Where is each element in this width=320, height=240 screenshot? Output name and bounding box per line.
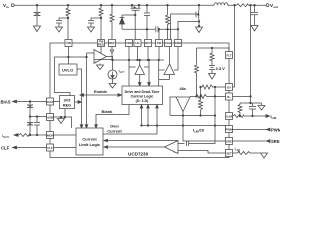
capacitor C5 series bootstrap — [156, 26, 178, 32]
svg-text:UVLO: UVLO — [62, 68, 73, 73]
wire Vout rail — [228, 4, 267, 6]
capacitor C2 — [56, 21, 62, 28]
label Ilim set current — [235, 146, 240, 152]
pin box BIAS left — [47, 98, 54, 105]
svg-text:IMON: IMON — [2, 133, 9, 139]
svg-text:BIAS: BIAS — [47, 100, 54, 104]
capacitor C8 bias — [27, 102, 33, 117]
pin box IMON left — [47, 132, 54, 139]
svg-text:Vout: Vout — [270, 3, 278, 9]
wire x68 down to VIN pin — [67, 18, 69, 40]
capacitor C10 imon filter — [34, 117, 40, 136]
wire op-amp minus input — [87, 47, 102, 129]
svg-text:(D: 1-D): (D: 1-D) — [136, 99, 149, 103]
svg-text:Enable: Enable — [94, 89, 108, 94]
capacitor C4 at x148 — [144, 4, 150, 39]
capacitor C1 input bulk — [34, 4, 41, 26]
svg-text:−: − — [174, 144, 176, 147]
wire sense- down — [233, 5, 252, 103]
wire comparator lower input — [178, 151, 226, 154]
wire op-amp output bus — [107, 57, 165, 71]
svg-text:GND: GND — [175, 41, 181, 45]
node Vin terminal — [11, 4, 14, 7]
pin box PWM right — [226, 126, 233, 133]
wire pin x124 down to drive box — [128, 47, 135, 87]
svg-text:Limit Logic: Limit Logic — [79, 142, 101, 147]
svg-text:PWM: PWM — [271, 128, 280, 133]
wire gate bias bus y29 — [122, 28, 155, 30]
svg-text:+: + — [178, 99, 180, 102]
label PWM — [271, 128, 282, 133]
wire y114 — [170, 115, 215, 117]
pin box BP — [98, 40, 105, 47]
pin box FLT right top — [226, 52, 233, 59]
wire ILIM line — [233, 115, 267, 117]
capacitor C3 — [88, 21, 94, 28]
svg-text:ILIM: ILIM — [235, 146, 240, 152]
node sense- — [250, 4, 252, 6]
pin box ISNS- right — [226, 93, 233, 100]
wire pin DRVH x134 down — [137, 47, 139, 61]
svg-text:VDD: VDD — [126, 41, 132, 45]
resistor Rsense — [237, 4, 249, 7]
svg-text:SRE: SRE — [271, 139, 280, 144]
wire drive out x149 — [147, 105, 150, 127]
block 3V3 REG — [60, 96, 75, 109]
svg-text:Blank: Blank — [102, 109, 114, 114]
pin box SRE right — [226, 138, 233, 145]
current source I1 — [108, 70, 117, 79]
IC outline UCD7230 — [50, 43, 229, 158]
svg-text:Control Logic: Control Logic — [131, 95, 154, 99]
wire 48x output down — [182, 112, 225, 142]
wire pin VIN down to node — [68, 47, 70, 65]
pin box VGG — [165, 40, 172, 47]
svg-text:VIN: VIN — [66, 41, 71, 45]
resistor R gain vertical — [199, 96, 203, 115]
arrow ilim set — [238, 150, 240, 153]
wire T2 to drive box arrow — [159, 75, 170, 80]
svg-text:BST: BST — [145, 41, 151, 45]
arrow enable into drive logic — [80, 94, 122, 97]
svg-text:IS+: IS+ — [227, 86, 232, 90]
wire 48x left input — [170, 97, 176, 116]
wire sense+ down — [233, 5, 235, 87]
wire CLF external — [16, 147, 47, 149]
ground 3.3V source — [209, 74, 216, 80]
wire node to 3V3 reg — [55, 56, 88, 95]
label current limit logic — [79, 137, 101, 148]
ground y103 — [258, 103, 265, 110]
svg-text:Vin: Vin — [3, 3, 9, 9]
node sense+ — [234, 4, 236, 6]
wire SW pin to bus — [158, 29, 160, 40]
resistor R ilim set — [237, 152, 260, 155]
svg-text:VGG: VGG — [165, 41, 172, 45]
block drive and dead-time control logic — [122, 86, 163, 105]
transistor Q3 ref — [94, 47, 114, 60]
pin box ISNS+ right — [226, 84, 233, 91]
ground below Q2 — [196, 25, 203, 32]
arrow CLF out — [13, 146, 17, 149]
label Vin — [3, 3, 9, 9]
resistor R at x100 — [99, 4, 103, 18]
pin box SW — [156, 40, 163, 47]
svg-text:−: − — [95, 53, 97, 56]
label BIAS — [1, 100, 11, 105]
svg-text:Current: Current — [107, 129, 122, 134]
wire T1 apex to bus — [139, 59, 150, 86]
svg-text:SRE: SRE — [226, 140, 232, 144]
resistor R pullup — [210, 48, 214, 64]
block UVLO — [59, 64, 77, 75]
wire x134 gate to DRVH pin — [134, 15, 136, 40]
wire y103 — [240, 102, 262, 104]
ground below C3 — [88, 27, 95, 32]
wire SRE line — [233, 140, 267, 142]
comparator C2 — [165, 141, 179, 154]
svg-text:AGND: AGND — [46, 116, 55, 120]
resistor R sense line2 — [190, 94, 226, 98]
resistor R imon — [19, 134, 30, 137]
wire x178 up to FET source — [178, 22, 199, 30]
label Blank — [102, 109, 114, 114]
label drive logic — [125, 90, 160, 103]
wire pin x154 down — [158, 47, 160, 61]
wire internal gnd bus y117 — [54, 109, 72, 128]
wire DRVL gate line — [171, 14, 196, 40]
wire x200.5 between lines — [200, 87, 202, 96]
label Iref — [119, 68, 126, 74]
label Ilim — [271, 114, 277, 120]
svg-text:IS−: IS− — [227, 95, 232, 99]
pin box CLF left — [47, 144, 54, 151]
label 48x — [180, 87, 187, 91]
wire comparator out arrow — [104, 146, 165, 149]
label ILIM/10 — [193, 128, 205, 134]
svg-text:IMON: IMON — [46, 134, 54, 138]
zener diode D1 — [120, 15, 125, 29]
ground below Cout — [251, 26, 258, 32]
wire branch to C3 — [91, 17, 102, 20]
buffer T1 — [135, 65, 145, 75]
label UVLO — [62, 68, 73, 73]
op-amp U2 error amp — [94, 50, 107, 64]
wire BIAS pin to 3V3 reg — [54, 101, 60, 103]
svg-text:−: − — [186, 99, 188, 102]
label Vout — [270, 3, 278, 9]
capacitor C7 ilim — [249, 103, 256, 116]
arrow Ilim out — [266, 115, 270, 118]
wire UVLO to enable — [77, 69, 82, 128]
pin box BST — [145, 40, 152, 47]
label CLF — [1, 146, 10, 151]
arrow BIAS out — [13, 100, 17, 103]
wire BIAS external — [16, 101, 47, 103]
wire IMON internal — [54, 134, 77, 136]
label SRE — [271, 139, 280, 144]
svg-text:ILIM: ILIM — [271, 114, 277, 120]
pin box DRVH — [134, 40, 141, 47]
pin box PGND — [175, 40, 182, 47]
svg-text:3V3: 3V3 — [64, 99, 71, 103]
pin box VIN — [65, 40, 72, 47]
wire AGND external — [29, 116, 46, 118]
wire pin x144 down — [147, 47, 149, 61]
svg-text:CLF: CLF — [47, 146, 53, 150]
wire T2 apex up — [158, 47, 178, 87]
arrow PWM in — [267, 128, 271, 131]
pin box VDD — [126, 40, 133, 47]
resistor R at x167.5 — [166, 4, 170, 39]
svg-text:SET: SET — [226, 152, 232, 156]
label 3V3 REG — [63, 99, 71, 108]
svg-text:REG: REG — [98, 43, 105, 47]
wire ILIM set resistor — [233, 152, 238, 154]
svg-text:REF: REF — [109, 41, 115, 45]
svg-text:SW: SW — [157, 41, 162, 45]
svg-text:ILIM: ILIM — [226, 115, 232, 119]
node bus to source — [177, 29, 179, 31]
wire x178 down to PGND pin — [177, 29, 179, 39]
label Enable — [94, 89, 108, 94]
ground op-amp — [97, 64, 104, 70]
pin box AGND left — [47, 114, 54, 121]
source 3.3V — [209, 64, 215, 74]
svg-text:Drive and Dead-Time: Drive and Dead-Time — [125, 90, 160, 94]
ground below C1 — [34, 26, 41, 32]
svg-text:HG: HG — [135, 41, 140, 45]
svg-text:BIAS: BIAS — [1, 100, 11, 105]
wire drive out x139 — [140, 105, 143, 127]
wire CLL input arrows from top — [80, 125, 97, 128]
svg-text:CLF: CLF — [1, 146, 10, 151]
wire IMON external — [18, 134, 47, 136]
ground current source — [109, 79, 116, 88]
svg-text:3.3 V: 3.3 V — [216, 66, 226, 71]
ground below C2 — [56, 27, 63, 32]
svg-text:PWM: PWM — [225, 128, 233, 132]
wire CLF internal — [54, 147, 77, 149]
pin box REF — [109, 40, 116, 47]
resistor R at x112 — [110, 4, 114, 39]
capacitor C6 comparator input — [178, 87, 216, 146]
resistor R sense line1 — [200, 85, 226, 89]
wire drive out x157 — [103, 105, 158, 135]
label IMON — [2, 133, 9, 139]
wire bus y125 — [142, 125, 226, 127]
capacitor Cout — [251, 4, 258, 25]
label 3.3V — [216, 66, 226, 71]
arrow IMON out — [14, 134, 18, 137]
wire T1 to drive box arrow — [138, 75, 150, 87]
pin labels tiny — [46, 40, 233, 156]
wire x100 down to pin — [100, 18, 102, 40]
pin box ILIM right — [226, 113, 233, 120]
node Vout terminal — [266, 4, 269, 7]
capacitor C9 imon filter — [27, 117, 33, 136]
wire gate node y15 — [122, 14, 136, 16]
inductor L1 — [214, 3, 228, 5]
svg-text:FLT: FLT — [226, 54, 231, 58]
amp 48x — [176, 97, 190, 112]
wire overcurrent arrow top — [104, 139, 178, 142]
wire Vin rail — [14, 4, 214, 6]
svg-text:IEXT: IEXT — [119, 68, 126, 74]
transistor Q1 pass FET — [131, 4, 141, 15]
wire blank line — [96, 105, 129, 129]
svg-text:ILIM/10: ILIM/10 — [193, 128, 205, 134]
buffer T2 — [164, 64, 175, 75]
wire 3V3 output arrow — [75, 101, 82, 104]
label Over Current — [107, 124, 122, 134]
wire FLT pullup — [197, 47, 230, 65]
arrow SRE in — [267, 140, 271, 143]
resistor R FLT lower — [195, 65, 199, 97]
svg-text:REG: REG — [63, 104, 71, 108]
wire branch to C2 — [59, 17, 69, 20]
resistor R ilim series — [233, 115, 244, 118]
resistor divider R top at x68 — [66, 4, 70, 18]
resistor R ilim top vertical — [238, 103, 242, 116]
transistor Q2 low-side FET — [196, 4, 200, 26]
svg-text:+: + — [95, 60, 97, 63]
ground AGND internal — [58, 117, 65, 124]
label UCD7230 — [128, 152, 149, 157]
svg-text:Current: Current — [82, 137, 97, 142]
wire PWM line — [233, 129, 267, 131]
pin box ILIMSET right bottom — [226, 150, 233, 157]
block current limit logic — [76, 128, 103, 155]
svg-text:UCD7230: UCD7230 — [128, 152, 149, 157]
svg-text:48x: 48x — [180, 87, 187, 91]
ground ilim set — [261, 153, 268, 158]
